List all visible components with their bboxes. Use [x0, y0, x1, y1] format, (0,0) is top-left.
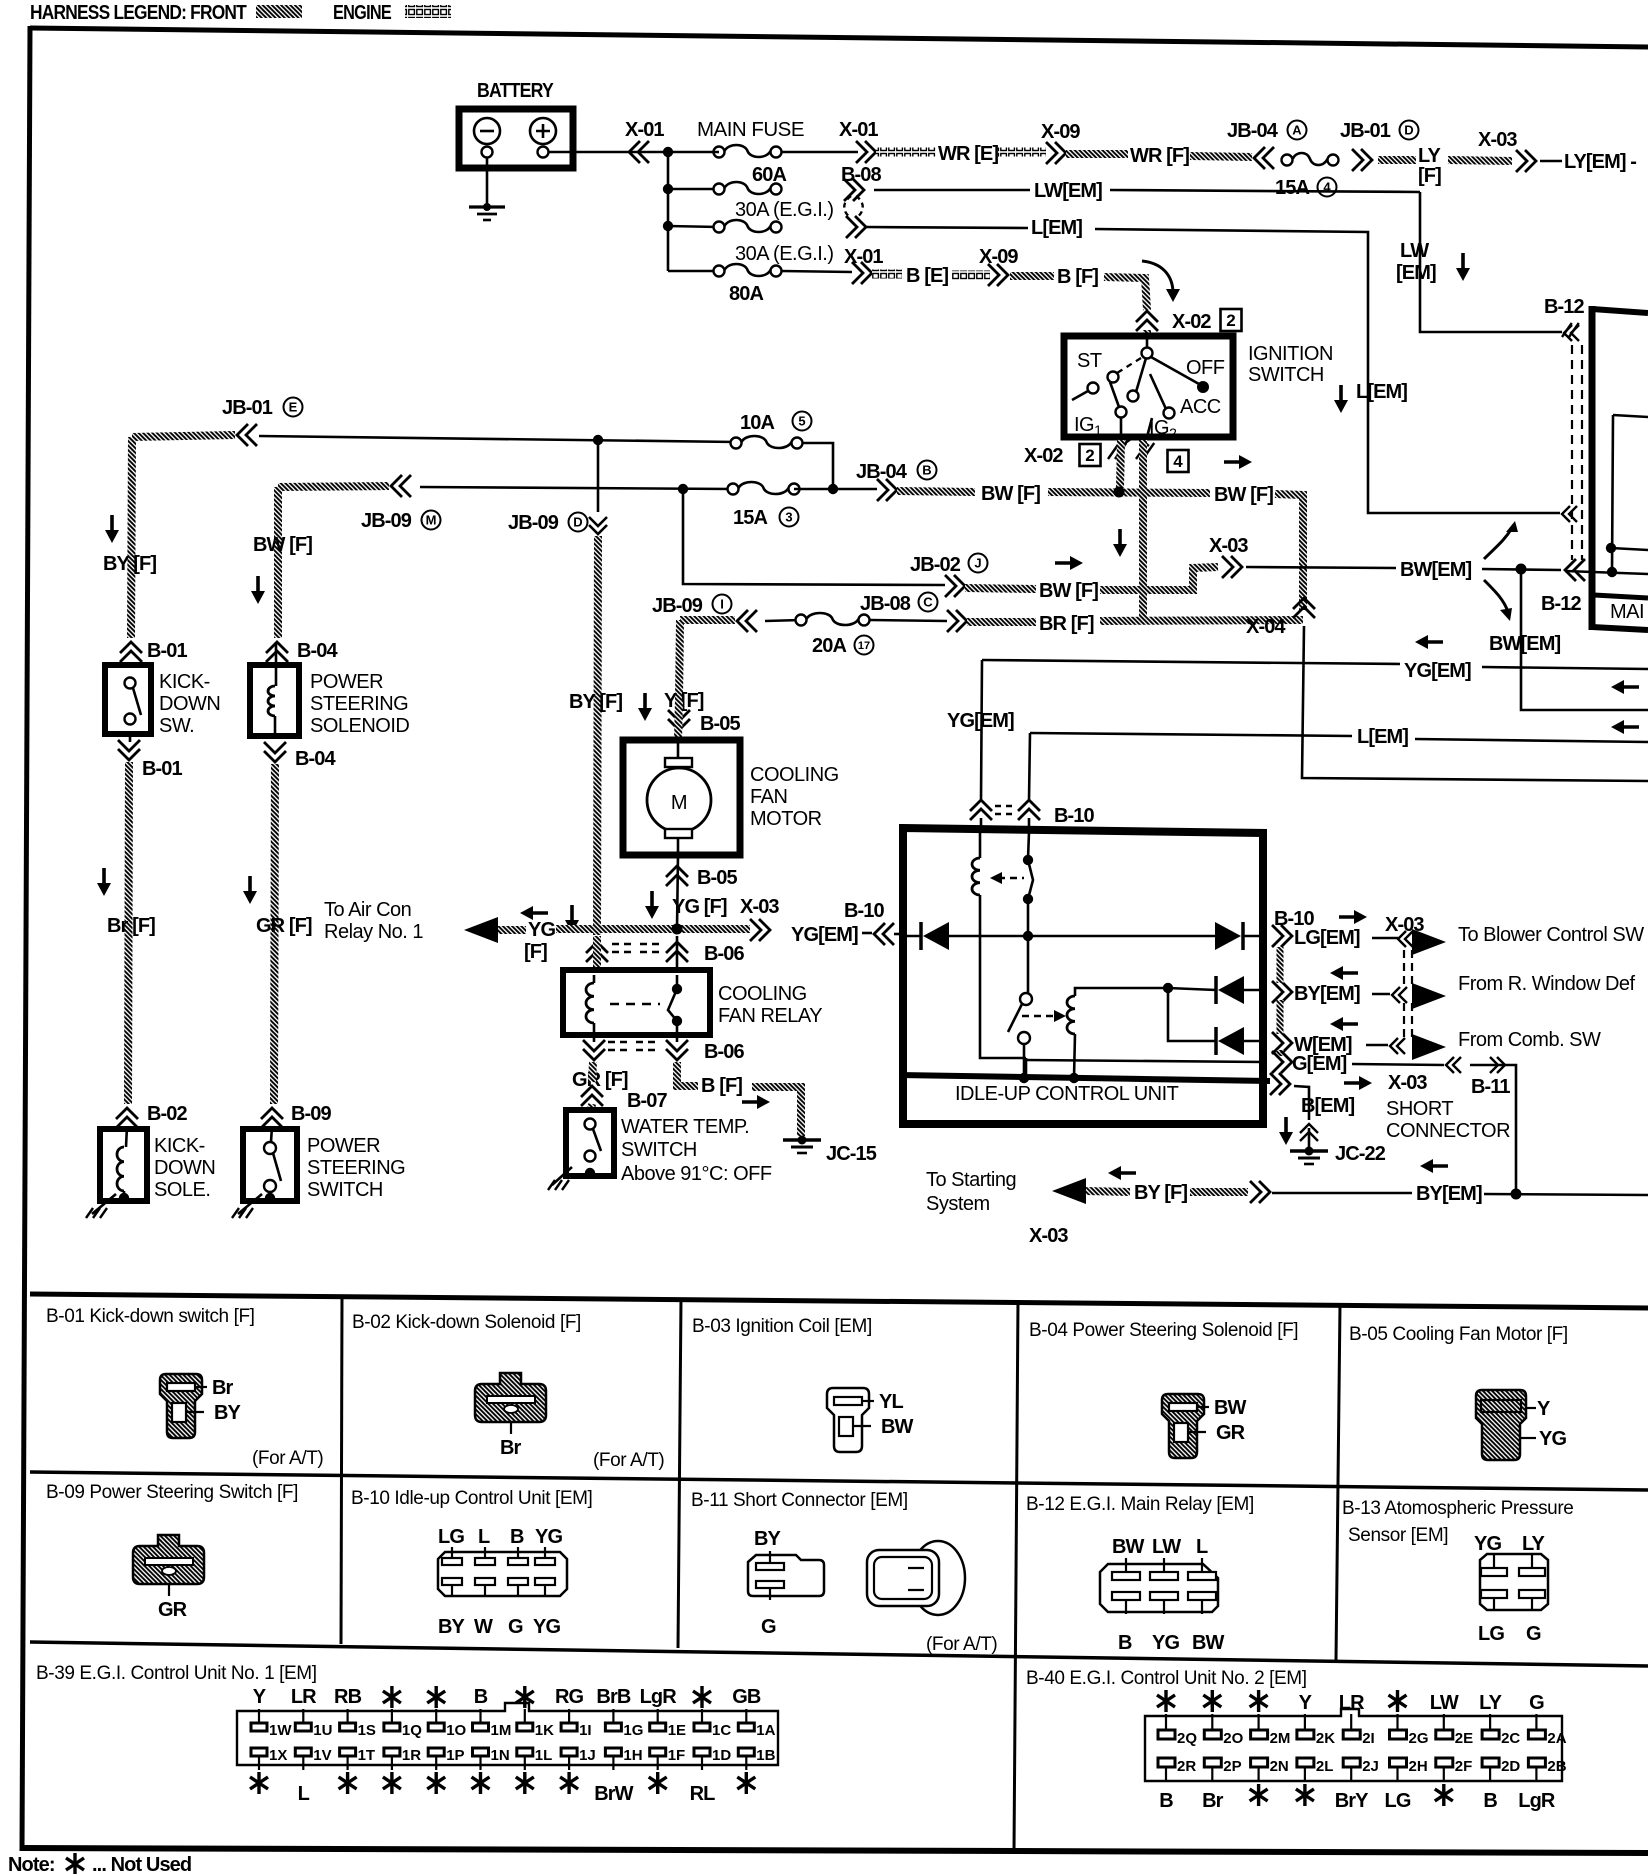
svg-text:IGNITION: IGNITION — [1248, 343, 1333, 365]
pin 1U — [295, 1723, 311, 1731]
connector icon B-39 — [237, 1703, 778, 1765]
svg-text:30A (E.G.I.): 30A (E.G.I.) — [735, 243, 833, 265]
wire to X-01 right — [668, 151, 719, 154]
svg-text:LW: LW — [1430, 1692, 1459, 1714]
svg-text:B [F]: B [F] — [1057, 266, 1098, 288]
svg-text:BY [F]: BY [F] — [103, 553, 156, 575]
connector B-06 top — [586, 942, 608, 962]
svg-text:JB-08: JB-08 — [860, 593, 911, 615]
pin 1J — [561, 1748, 577, 1756]
wire BW [F] row2 — [965, 588, 1036, 589]
svg-text:(For A/T): (For A/T) — [252, 1448, 323, 1469]
connector B-05 below — [677, 855, 678, 929]
svg-text:80A: 80A — [729, 283, 763, 305]
svg-text:BW [F]: BW [F] — [1039, 580, 1098, 602]
svg-text:B-01: B-01 — [147, 640, 188, 662]
svg-text:SHORT: SHORT — [1386, 1098, 1453, 1120]
svg-text:1M: 1M — [491, 1722, 512, 1739]
legend front harness swatch — [256, 5, 302, 18]
svg-text:POWER: POWER — [310, 671, 383, 693]
wire YG[EM] corner down to B-10 — [981, 660, 982, 800]
connector X-02 entry — [1136, 311, 1158, 331]
svg-text:B-01 Kick-down switch [F]: B-01 Kick-down switch [F] — [46, 1306, 255, 1327]
svg-text:JB-04: JB-04 — [856, 461, 908, 483]
svg-text:2F: 2F — [1455, 1758, 1473, 1775]
svg-text:1D: 1D — [712, 1747, 731, 1764]
svg-text:1B: 1B — [756, 1747, 775, 1764]
table row divider 1 — [30, 1472, 1648, 1490]
svg-text:RB: RB — [334, 1686, 362, 1708]
wire battery plus to X-01 — [549, 151, 668, 154]
pin 2M — [1251, 1730, 1268, 1739]
svg-text:BW[EM]: BW[EM] — [1489, 633, 1560, 655]
pin 1H — [605, 1748, 621, 1756]
output B[EM] — [1270, 1073, 1290, 1095]
fuse 15A (4) — [1282, 155, 1293, 166]
pin 2R — [1158, 1758, 1175, 1767]
svg-text:B-12: B-12 — [1544, 296, 1585, 318]
svg-text:OFF: OFF — [1186, 357, 1225, 379]
svg-text:POWER: POWER — [307, 1135, 380, 1157]
pin 1X — [251, 1748, 267, 1756]
svg-text:JB-09: JB-09 — [652, 595, 703, 617]
svg-text:KICK-: KICK- — [154, 1135, 205, 1157]
svg-text:Y: Y — [1537, 1398, 1551, 1420]
pin 2E — [1436, 1730, 1453, 1739]
svg-text:2: 2 — [1085, 446, 1094, 465]
svg-text:SWITCH: SWITCH — [621, 1139, 697, 1161]
svg-text:B-10 Idle-up Control Unit [EM]: B-10 Idle-up Control Unit [EM] — [351, 1488, 592, 1509]
svg-text:SOLE.: SOLE. — [154, 1179, 210, 1201]
fuse 15A (3) — [728, 484, 739, 495]
svg-text:BW: BW — [1214, 1397, 1247, 1419]
wire ignition IG1 down — [1120, 440, 1121, 488]
svg-text:B-09 Power Steering Switch [F]: B-09 Power Steering Switch [F] — [46, 1482, 298, 1503]
water temp switch — [566, 1110, 614, 1176]
svg-text:B: B — [1159, 1790, 1173, 1812]
battery ground wire — [486, 158, 489, 206]
svg-text:GB: GB — [732, 1686, 761, 1708]
pin 1B — [738, 1748, 754, 1756]
svg-text:G: G — [1526, 1623, 1541, 1645]
svg-text:B-10: B-10 — [844, 900, 885, 922]
svg-text:2D: 2D — [1501, 1758, 1520, 1775]
svg-text:BW: BW — [1112, 1536, 1145, 1558]
svg-text:BW[EM]: BW[EM] — [1400, 559, 1471, 581]
X-03 dashed connector verticals — [1403, 950, 1405, 985]
svg-text:B-05: B-05 — [697, 867, 738, 889]
svg-text:MOTOR: MOTOR — [750, 808, 822, 830]
svg-text:B-39 E.G.I. Control Unit No. 1: B-39 E.G.I. Control Unit No. 1 [EM] — [36, 1663, 317, 1684]
svg-text:GR [F]: GR [F] — [572, 1069, 628, 1091]
svg-text:DOWN: DOWN — [159, 693, 220, 715]
svg-text:LG: LG — [1478, 1623, 1504, 1645]
connector icon B-12 — [1100, 1564, 1218, 1612]
svg-text:To Blower Control SW: To Blower Control SW — [1458, 924, 1644, 946]
svg-text:ENGINE: ENGINE — [333, 2, 391, 24]
connector B-09 — [261, 1108, 283, 1128]
svg-text:FAN RELAY: FAN RELAY — [718, 1005, 822, 1027]
svg-text:... Not Used: ... Not Used — [92, 1854, 191, 1874]
svg-text:COOLING: COOLING — [718, 983, 807, 1005]
connector icon B-04 — [1162, 1394, 1204, 1458]
svg-text:SOLENOID: SOLENOID — [310, 715, 409, 737]
table column lines — [341, 1296, 342, 1644]
svg-text:B-07: B-07 — [627, 1090, 668, 1112]
svg-text:1K: 1K — [535, 1722, 554, 1739]
svg-text:BATTERY: BATTERY — [477, 80, 554, 102]
pin 2D — [1482, 1758, 1499, 1767]
pin 1M — [473, 1723, 489, 1731]
svg-text:HARNESS LEGEND: FRONT: HARNESS LEGEND: FRONT — [30, 2, 247, 24]
svg-text:15A: 15A — [733, 507, 767, 529]
svg-text:BY [F]: BY [F] — [1134, 1182, 1187, 1204]
svg-text:B-11 Short Connector [EM]: B-11 Short Connector [EM] — [691, 1490, 908, 1511]
svg-text:3: 3 — [785, 510, 792, 525]
table row divider 2 — [30, 1642, 1648, 1666]
cooling fan relay — [563, 970, 710, 1035]
output LG[EM] — [1272, 925, 1292, 947]
svg-text:B: B — [474, 1686, 488, 1708]
relay contact 1 — [1028, 832, 1029, 859]
svg-text:L[EM]: L[EM] — [1357, 726, 1408, 748]
wire L[EM] long — [1030, 733, 1352, 736]
svg-text:B-04: B-04 — [297, 640, 339, 662]
svg-text:LgR: LgR — [1518, 1790, 1556, 1812]
svg-text:Sensor [EM]: Sensor [EM] — [1348, 1525, 1448, 1546]
svg-text:X-01: X-01 — [625, 119, 664, 141]
svg-text:JB-01: JB-01 — [1340, 120, 1391, 142]
svg-text:BW [F]: BW [F] — [1214, 484, 1273, 506]
wire YG[EM] long — [982, 660, 1400, 664]
wire B [E] — [872, 270, 902, 279]
svg-text:MAI: MAI — [1610, 601, 1644, 623]
pin 1Q — [384, 1723, 400, 1731]
svg-text:Y: Y — [1299, 1692, 1313, 1714]
svg-text:(For A/T): (For A/T) — [593, 1450, 664, 1471]
svg-text:B-12 E.G.I. Main Relay [EM]: B-12 E.G.I. Main Relay [EM] — [1026, 1494, 1254, 1515]
connector B-12 dashed boundary — [1571, 345, 1573, 560]
svg-text:MAIN FUSE: MAIN FUSE — [697, 119, 804, 141]
pin 2A — [1528, 1730, 1545, 1739]
pin 2Q — [1158, 1730, 1175, 1739]
wire B [F] — [1010, 272, 1054, 280]
connector icon B-02 — [475, 1373, 546, 1422]
svg-text:LY: LY — [1479, 1692, 1502, 1714]
svg-text:B-04 Power Steering Solenoid [: B-04 Power Steering Solenoid [F] — [1029, 1320, 1298, 1341]
diode W — [1168, 988, 1216, 1041]
svg-text:STEERING: STEERING — [310, 693, 408, 715]
pin 2P — [1204, 1758, 1221, 1767]
svg-text:To Air Con: To Air Con — [324, 899, 411, 921]
dashed link 1 — [998, 877, 1024, 879]
svg-text:30A (E.G.I.): 30A (E.G.I.) — [735, 199, 833, 221]
svg-text:M: M — [671, 792, 687, 814]
svg-text:1H: 1H — [623, 1747, 642, 1764]
svg-text:LG: LG — [1385, 1790, 1411, 1812]
svg-text:X-01: X-01 — [839, 119, 878, 141]
svg-text:2K: 2K — [1316, 1730, 1335, 1747]
connector B-04 top — [266, 642, 288, 662]
svg-text:Y [F]: Y [F] — [664, 690, 704, 712]
svg-text:JB-02: JB-02 — [910, 554, 961, 576]
svg-text:X-03: X-03 — [1478, 129, 1517, 151]
svg-text:17: 17 — [858, 640, 870, 652]
svg-text:YG: YG — [528, 919, 555, 941]
svg-text:J: J — [974, 556, 981, 571]
svg-text:L[EM]: L[EM] — [1356, 381, 1407, 403]
svg-text:YG: YG — [1152, 1632, 1179, 1654]
svg-text:B-01: B-01 — [142, 758, 183, 780]
connector B-10 entry — [970, 800, 992, 820]
wire G row — [1025, 1058, 1028, 1078]
svg-text:1A: 1A — [756, 1722, 775, 1739]
pin 2J — [1343, 1758, 1360, 1767]
wire BY to kickdown — [132, 435, 235, 437]
svg-text:1O: 1O — [446, 1722, 466, 1739]
chassis ground B-02 — [92, 1194, 116, 1214]
output BY[EM] — [1272, 981, 1292, 1003]
svg-text:Above 91°C: OFF: Above 91°C: OFF — [621, 1163, 772, 1185]
svg-text:E: E — [289, 400, 298, 415]
svg-text:BY[EM]: BY[EM] — [1294, 983, 1360, 1005]
svg-text:YG[EM]: YG[EM] — [1404, 660, 1471, 682]
wire GR [F] left — [274, 764, 275, 1104]
svg-text:RG: RG — [555, 1686, 584, 1708]
svg-text:System: System — [926, 1193, 990, 1215]
pin 1E — [650, 1723, 666, 1731]
svg-text:B-02 Kick-down Solenoid [F]: B-02 Kick-down Solenoid [F] — [352, 1312, 581, 1333]
svg-text:JB-04: JB-04 — [1227, 120, 1279, 142]
svg-text:DOWN: DOWN — [154, 1157, 215, 1179]
inner box of main relay — [1613, 415, 1648, 417]
fuse 10A (5) — [731, 438, 742, 449]
pin 2B — [1528, 1758, 1545, 1767]
wire WR [E] engine harness — [876, 148, 936, 157]
pin 1T — [340, 1748, 356, 1756]
pin 1I — [561, 1723, 577, 1731]
B-10 connector hatch braces — [1277, 947, 1284, 983]
svg-text:G: G — [1529, 1692, 1544, 1714]
svg-text:X-03: X-03 — [1388, 1072, 1427, 1094]
connector brace (B-08) — [844, 196, 851, 218]
svg-text:1W: 1W — [269, 1722, 292, 1739]
kick-down switch — [105, 665, 151, 734]
svg-text:Br: Br — [500, 1437, 522, 1459]
svg-text:L: L — [1196, 1536, 1208, 1558]
svg-text:WR [F]: WR [F] — [1130, 145, 1189, 167]
svg-text:BY: BY — [438, 1616, 466, 1638]
pin 2I — [1343, 1730, 1360, 1739]
pin 2O — [1204, 1730, 1221, 1739]
connector X-02 exit marks — [1108, 443, 1126, 459]
pin 1S — [340, 1723, 356, 1731]
table top border — [30, 1294, 1648, 1308]
svg-text:B-04: B-04 — [295, 748, 337, 770]
connector icon B-13 — [1480, 1554, 1548, 1610]
svg-text:1X: 1X — [269, 1747, 287, 1764]
connector icon B-11 A/T — [911, 1541, 965, 1615]
wire WR [F] front harness — [1066, 150, 1128, 158]
svg-text:2N: 2N — [1270, 1758, 1289, 1775]
diagram left border — [22, 26, 30, 1851]
svg-text:1T: 1T — [358, 1747, 376, 1764]
svg-text:20A: 20A — [812, 635, 846, 657]
svg-text:B: B — [922, 463, 931, 478]
pin 1V — [295, 1748, 311, 1756]
pin 2G — [1390, 1730, 1407, 1739]
svg-text:YG: YG — [1539, 1428, 1566, 1450]
wire LW[EM] — [874, 189, 1030, 192]
diagram top border — [30, 28, 1648, 47]
svg-text:X-04: X-04 — [1246, 616, 1286, 638]
svg-text:[F]: [F] — [1418, 165, 1441, 187]
power steering switch — [243, 1129, 297, 1201]
svg-text:LG: LG — [438, 1526, 464, 1548]
svg-text:2B: 2B — [1547, 1758, 1566, 1775]
svg-text:BY [F]: BY [F] — [569, 691, 622, 713]
switch 2 — [1020, 993, 1032, 1005]
svg-text:2I: 2I — [1362, 1730, 1375, 1747]
svg-text:2R: 2R — [1177, 1758, 1196, 1775]
svg-text:SW.: SW. — [159, 715, 194, 737]
svg-text:B-05 Cooling Fan Motor [F]: B-05 Cooling Fan Motor [F] — [1349, 1324, 1568, 1345]
fuse 80A — [668, 270, 719, 273]
svg-text:2C: 2C — [1501, 1730, 1520, 1747]
svg-text:1V: 1V — [313, 1747, 331, 1764]
svg-text:2H: 2H — [1409, 1758, 1428, 1775]
wire 15A row — [420, 487, 733, 489]
wire JB-09I down to Y — [680, 616, 735, 624]
svg-text:2G: 2G — [1409, 1730, 1429, 1747]
svg-text:Note:: Note: — [8, 1854, 55, 1874]
pin 1R — [384, 1748, 400, 1756]
svg-text:W: W — [474, 1616, 493, 1638]
svg-text:YG[EM]: YG[EM] — [791, 924, 858, 946]
svg-text:To Starting: To Starting — [926, 1169, 1016, 1191]
svg-text:JB-09: JB-09 — [508, 512, 559, 534]
wire JB-01E to fuse 10A — [259, 436, 736, 442]
relay coil 1 — [979, 832, 982, 858]
svg-text:1N: 1N — [491, 1747, 510, 1764]
ignition outputs — [1120, 418, 1123, 437]
svg-text:L: L — [298, 1783, 310, 1805]
wire BW to pwr steering solenoid — [278, 486, 389, 487]
svg-text:LY: LY — [1522, 1533, 1545, 1555]
svg-text:GR: GR — [1216, 1422, 1246, 1444]
svg-text:1U: 1U — [313, 1722, 332, 1739]
wire BY [F] middle — [597, 440, 600, 512]
svg-text:Br: Br — [1202, 1790, 1224, 1812]
svg-text:BW: BW — [1192, 1632, 1225, 1654]
svg-text:LW: LW — [1400, 240, 1429, 262]
fuse 60A row2 30A EGI — [668, 188, 719, 191]
svg-text:B-12: B-12 — [1541, 593, 1582, 615]
svg-text:B [F]: B [F] — [701, 1075, 742, 1097]
wire X-04 down — [1302, 626, 1648, 781]
svg-text:YL: YL — [879, 1391, 903, 1413]
connector icon B-03 — [827, 1388, 869, 1452]
svg-text:BrW: BrW — [594, 1783, 633, 1805]
svg-text:1S: 1S — [358, 1722, 376, 1739]
ground JC-15 — [783, 1138, 821, 1142]
pin 2K — [1297, 1730, 1314, 1739]
wire JB-04B down — [683, 489, 945, 585]
ignition switch — [1064, 336, 1233, 437]
fuse row3 30A EGI — [668, 226, 719, 227]
svg-text:X-03: X-03 — [1029, 1225, 1068, 1247]
svg-text:G: G — [761, 1616, 776, 1638]
svg-text:1G: 1G — [623, 1722, 643, 1739]
svg-text:D: D — [1404, 123, 1413, 138]
svg-text:Br [F]: Br [F] — [107, 915, 155, 937]
svg-text:GR [F]: GR [F] — [256, 915, 312, 937]
wire L[EM] — [866, 227, 1028, 228]
chassis ground B-09 — [238, 1194, 262, 1214]
svg-text:2P: 2P — [1223, 1758, 1241, 1775]
svg-text:LW: LW — [1152, 1536, 1181, 1558]
svg-text:B-05: B-05 — [700, 713, 741, 735]
pin 1A — [738, 1723, 754, 1731]
svg-text:B: B — [1118, 1632, 1132, 1654]
svg-text:5: 5 — [798, 414, 805, 429]
svg-text:M: M — [426, 513, 437, 528]
pin 1F — [650, 1748, 666, 1756]
connector icon B-01 — [160, 1374, 202, 1438]
wire YG [F] row — [464, 917, 498, 943]
svg-text:X-03: X-03 — [740, 896, 779, 918]
wire L corner down to B-10 — [1029, 733, 1030, 800]
wire BW[EM] — [1246, 567, 1396, 568]
svg-text:BY: BY — [754, 1528, 782, 1550]
pin 2L — [1297, 1758, 1314, 1767]
svg-text:LR: LR — [1339, 1692, 1365, 1714]
svg-text:YG: YG — [1474, 1533, 1501, 1555]
svg-text:I: I — [720, 597, 724, 612]
output G[EM] — [1272, 1051, 1292, 1073]
svg-text:YG: YG — [533, 1616, 560, 1638]
connector icon B-11 — [748, 1555, 824, 1596]
pin 2C — [1482, 1730, 1499, 1739]
connector B-01 bottom — [118, 740, 140, 760]
wire BR [F] — [967, 618, 1036, 626]
pin 1W — [251, 1723, 267, 1731]
svg-text:B-06: B-06 — [704, 1041, 745, 1063]
svg-text:LW[EM]: LW[EM] — [1034, 180, 1102, 202]
svg-text:1J: 1J — [579, 1747, 596, 1764]
svg-text:LY: LY — [1418, 145, 1441, 167]
svg-text:WATER TEMP.: WATER TEMP. — [621, 1116, 749, 1138]
svg-text:B-09: B-09 — [291, 1103, 332, 1125]
svg-text:4: 4 — [1173, 452, 1183, 471]
pin 2N — [1251, 1758, 1268, 1767]
svg-text:L: L — [478, 1526, 490, 1548]
svg-text:2O: 2O — [1223, 1730, 1243, 1747]
svg-text:B-02: B-02 — [147, 1103, 188, 1125]
diode LG left — [903, 935, 921, 938]
svg-text:LgR: LgR — [640, 1686, 678, 1708]
svg-text:JB-09: JB-09 — [361, 510, 412, 532]
svg-text:2Q: 2Q — [1177, 1730, 1197, 1747]
svg-text:X-02: X-02 — [1024, 445, 1063, 467]
legend engine harness swatch — [405, 5, 451, 18]
fuse 20A (17) — [765, 620, 801, 621]
svg-text:15A: 15A — [1275, 177, 1309, 199]
connector B-01 top — [120, 642, 142, 662]
pin 1G — [605, 1723, 621, 1731]
pin 1C — [694, 1723, 710, 1731]
svg-text:1L: 1L — [535, 1747, 553, 1764]
